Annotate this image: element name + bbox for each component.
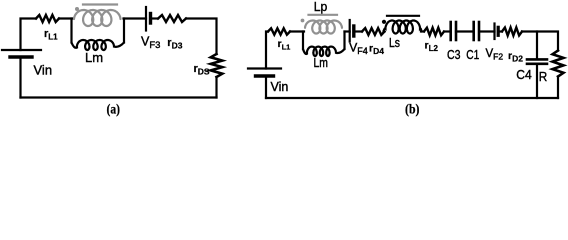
inductor Lm (b) bracket left bbox=[302, 32, 304, 50]
polarity dot Ls bbox=[382, 20, 386, 24]
transformer primary winding Lp (b, gray) bbox=[305, 21, 342, 34]
svg-text:Vin: Vin bbox=[34, 63, 53, 78]
svg-text:Lm: Lm bbox=[85, 50, 103, 65]
battery VF4 bbox=[350, 20, 354, 42]
resistor R bbox=[553, 51, 564, 77]
wire: (a) top, rL1 to Lm node bbox=[59, 17, 73, 19]
wire: Ls to rL2 bbox=[421, 30, 424, 32]
inductor Lm (a) bracket right bbox=[123, 19, 125, 43]
wire: (b) left-bottom segment bbox=[265, 76, 267, 98]
wire: (b) top-left corner bbox=[266, 32, 268, 69]
svg-text:C4: C4 bbox=[516, 67, 532, 82]
resistor rL1 (b) bbox=[268, 28, 290, 34]
svg-text:rL1: rL1 bbox=[278, 38, 291, 52]
transformer core line (b, gray) bbox=[309, 14, 338, 16]
wire: (a) bottom bbox=[21, 96, 217, 98]
resistor rL2 bbox=[424, 28, 444, 36]
wire: (b) right-top segment bbox=[522, 32, 558, 51]
svg-text:VF2: VF2 bbox=[486, 48, 504, 62]
inductor Lm (a) bracket left bbox=[70, 19, 72, 43]
wire: (a) right-bottom segment bbox=[215, 77, 217, 98]
wire: C1 to VF2 bbox=[480, 30, 495, 32]
inductor Ls core line bbox=[387, 15, 419, 17]
battery Vin (b) bbox=[248, 69, 281, 77]
svg-text:rD2: rD2 bbox=[508, 50, 523, 64]
wire: VF2 to rD2 bbox=[499, 30, 503, 32]
resistor rD2 bbox=[502, 28, 522, 36]
svg-text:VF4: VF4 bbox=[349, 41, 368, 57]
resistor rDS bbox=[211, 54, 223, 77]
svg-text:rD4: rD4 bbox=[369, 43, 384, 57]
svg-text:R: R bbox=[539, 69, 548, 84]
wire: (b) bottom bbox=[266, 97, 558, 99]
resistor rD3 bbox=[158, 15, 186, 22]
capacitor C4 bbox=[527, 59, 547, 63]
svg-text:Vin: Vin bbox=[271, 80, 289, 94]
transformer primary winding Lp (a, gray) bbox=[74, 10, 121, 26]
svg-text:(a): (a) bbox=[107, 103, 121, 118]
svg-text:C3: C3 bbox=[447, 48, 461, 62]
wire: Lm (b) node to VF4 bbox=[345, 30, 350, 32]
wire: (a) top-left segment bbox=[21, 19, 37, 51]
battery VF2 bbox=[495, 24, 499, 40]
svg-text:VF3: VF3 bbox=[141, 35, 160, 52]
wire: rD4 to Ls bbox=[384, 30, 385, 32]
transformer core line (a, gray) bbox=[83, 3, 117, 5]
svg-text:rL2: rL2 bbox=[425, 40, 439, 54]
resistor rL1 (a) bbox=[36, 15, 59, 22]
inductor Ls coil bbox=[384, 21, 422, 34]
polarity dot (a, gray) bbox=[75, 7, 79, 11]
svg-text:Lm: Lm bbox=[314, 56, 329, 70]
svg-text:Lp: Lp bbox=[314, 0, 328, 14]
svg-text:Ls: Ls bbox=[389, 36, 400, 50]
svg-text:rDS: rDS bbox=[194, 63, 210, 77]
svg-text:(b): (b) bbox=[405, 103, 420, 118]
wire: (a) battery VF3 to rD3 bbox=[151, 17, 159, 19]
capacitor C4 branch top wire bbox=[536, 32, 538, 59]
wire: C3 to C1 bbox=[456, 30, 474, 32]
wire: rL2 to C3 bbox=[444, 30, 451, 32]
wire: (a) right-top segment bbox=[186, 19, 217, 55]
resistor rD4 bbox=[362, 28, 385, 35]
svg-text:C1: C1 bbox=[466, 48, 479, 62]
inductor Lm (b) coil bbox=[303, 47, 345, 56]
wire: (b) rL1 to Lm node bbox=[290, 30, 304, 32]
inductor Lm (b) bracket right bbox=[343, 32, 345, 50]
capacitor C4 branch bottom wire bbox=[536, 65, 538, 98]
svg-text:rL1: rL1 bbox=[44, 28, 58, 42]
wire: (a) left-bottom segment bbox=[19, 57, 21, 98]
battery VF3 bbox=[146, 7, 151, 31]
wire: VF4 to rD4 bbox=[354, 30, 362, 32]
capacitor C1 bbox=[474, 22, 479, 40]
wire: (b) right-bottom segment bbox=[557, 77, 559, 99]
svg-text:rD3: rD3 bbox=[167, 37, 182, 51]
capacitor C3 bbox=[451, 22, 456, 40]
wire: (a) Lm node to VF3 bbox=[124, 17, 147, 19]
polarity dot (b, gray) bbox=[301, 19, 305, 23]
battery Vin (a) bbox=[2, 50, 41, 57]
inductor Lm (a) coil bbox=[72, 40, 125, 50]
